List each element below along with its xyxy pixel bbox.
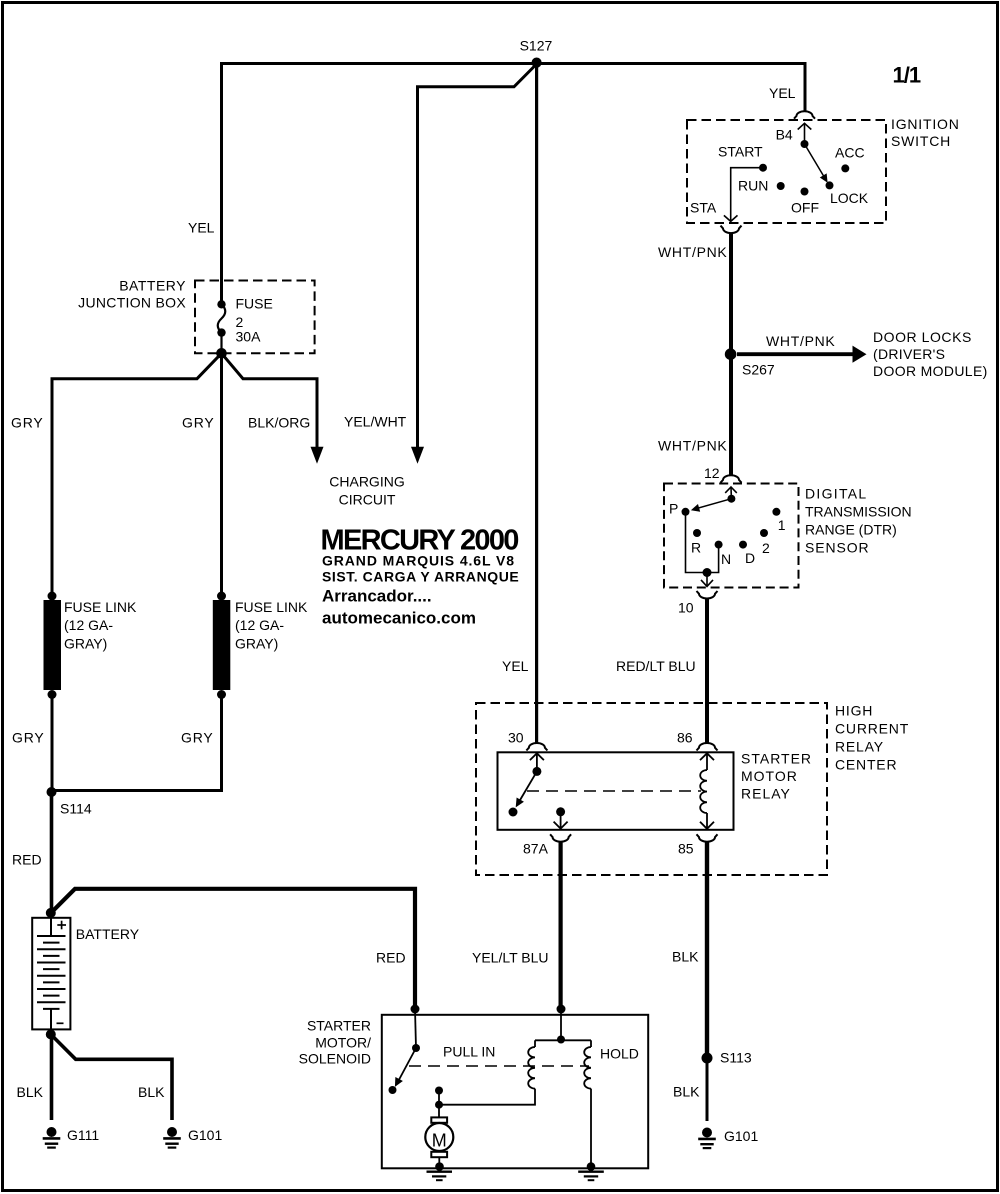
svg-text:WHT/PNK: WHT/PNK <box>658 244 727 260</box>
svg-text:1: 1 <box>778 517 786 533</box>
svg-text:N: N <box>721 551 731 567</box>
svg-text:30A: 30A <box>236 329 262 345</box>
svg-text:BATTERY: BATTERY <box>119 277 186 293</box>
svg-text:WHT/PNK: WHT/PNK <box>766 333 835 349</box>
svg-text:GRY: GRY <box>11 414 44 430</box>
svg-text:SWITCH: SWITCH <box>891 133 951 149</box>
svg-text:Arrancador....: Arrancador.... <box>322 586 432 605</box>
svg-text:GRY: GRY <box>181 729 214 745</box>
svg-text:2: 2 <box>762 540 770 556</box>
svg-text:automecanico.com: automecanico.com <box>322 608 476 627</box>
svg-text:S127: S127 <box>520 38 553 54</box>
svg-text:DOOR LOCKS: DOOR LOCKS <box>873 329 972 345</box>
svg-text:85: 85 <box>678 840 694 856</box>
svg-text:86: 86 <box>677 729 693 745</box>
svg-text:MOTOR: MOTOR <box>741 768 798 784</box>
svg-text:RUN: RUN <box>738 177 768 193</box>
svg-text:GRY: GRY <box>182 414 215 430</box>
svg-text:IGNITION: IGNITION <box>891 116 960 132</box>
svg-text:RELAY: RELAY <box>835 738 884 754</box>
svg-text:2: 2 <box>236 314 244 330</box>
svg-text:LOCK: LOCK <box>830 190 869 206</box>
svg-text:G101: G101 <box>724 1128 758 1144</box>
svg-text:SOLENOID: SOLENOID <box>299 1050 371 1066</box>
svg-text:(12 GA-: (12 GA- <box>235 617 284 633</box>
svg-text:GRAY): GRAY) <box>64 636 107 652</box>
svg-text:FUSE: FUSE <box>236 296 273 312</box>
svg-text:TRANSMISSION: TRANSMISSION <box>805 504 912 520</box>
svg-text:GRAND MARQUIS 4.6L V8: GRAND MARQUIS 4.6L V8 <box>322 553 515 569</box>
svg-text:MERCURY 2000: MERCURY 2000 <box>321 524 519 556</box>
svg-text:RANGE (DTR): RANGE (DTR) <box>805 522 897 538</box>
svg-text:(12 GA-: (12 GA- <box>64 617 113 633</box>
svg-text:R: R <box>691 539 701 555</box>
svg-text:YEL/WHT: YEL/WHT <box>344 413 407 429</box>
svg-text:PULL IN: PULL IN <box>443 1044 495 1060</box>
svg-text:10: 10 <box>678 599 694 615</box>
svg-text:STA: STA <box>690 200 717 216</box>
svg-text:DIGITAL: DIGITAL <box>805 486 868 502</box>
svg-text:(DRIVER'S: (DRIVER'S <box>873 346 945 362</box>
svg-text:GRAY): GRAY) <box>235 636 278 652</box>
svg-text:YEL/LT BLU: YEL/LT BLU <box>472 949 549 965</box>
svg-text:D: D <box>745 550 755 566</box>
svg-text:FUSE LINK: FUSE LINK <box>64 599 137 615</box>
svg-text:RED/LT BLU: RED/LT BLU <box>616 658 696 674</box>
svg-text:STARTER: STARTER <box>307 1017 371 1033</box>
svg-text:BLK: BLK <box>673 1083 700 1099</box>
svg-text:RED: RED <box>12 851 42 867</box>
svg-text:OFF: OFF <box>791 200 819 216</box>
svg-text:S267: S267 <box>742 362 775 378</box>
svg-text:WHT/PNK: WHT/PNK <box>658 437 727 453</box>
svg-text:S114: S114 <box>60 800 92 816</box>
svg-text:87A: 87A <box>523 840 549 856</box>
svg-text:DOOR MODULE): DOOR MODULE) <box>873 363 988 379</box>
svg-text:1/1: 1/1 <box>893 63 921 88</box>
svg-text:YEL: YEL <box>502 658 529 674</box>
svg-text:STARTER: STARTER <box>741 751 812 767</box>
svg-text:CURRENT: CURRENT <box>835 720 909 736</box>
svg-text:JUNCTION BOX: JUNCTION BOX <box>78 294 186 310</box>
svg-text:RED: RED <box>376 949 406 965</box>
svg-text:SIST. CARGA Y ARRANQUE: SIST. CARGA Y ARRANQUE <box>322 568 519 584</box>
svg-text:SENSOR: SENSOR <box>805 540 870 556</box>
svg-text:30: 30 <box>508 729 524 745</box>
svg-text:BLK/ORG: BLK/ORG <box>248 414 310 430</box>
svg-text:YEL: YEL <box>769 85 796 101</box>
svg-text:BLK: BLK <box>672 948 699 964</box>
svg-text:CHARGING: CHARGING <box>329 474 404 490</box>
svg-text:12: 12 <box>704 465 720 481</box>
svg-text:GRY: GRY <box>12 729 45 745</box>
svg-text:BATTERY: BATTERY <box>76 926 140 942</box>
svg-text:CENTER: CENTER <box>835 756 897 772</box>
svg-text:FUSE LINK: FUSE LINK <box>235 599 308 615</box>
svg-text:BLK: BLK <box>138 1084 165 1100</box>
svg-text:M: M <box>432 1130 447 1150</box>
svg-text:B4: B4 <box>776 127 793 143</box>
svg-text:G101: G101 <box>188 1127 222 1143</box>
svg-text:G111: G111 <box>67 1127 99 1143</box>
svg-text:BLK: BLK <box>17 1084 44 1100</box>
svg-text:RELAY: RELAY <box>741 786 791 802</box>
svg-text:ACC: ACC <box>835 145 865 161</box>
svg-text:S113: S113 <box>720 1049 752 1065</box>
svg-text:P: P <box>669 500 678 516</box>
svg-text:MOTOR/: MOTOR/ <box>315 1034 371 1050</box>
svg-text:CIRCUIT: CIRCUIT <box>339 492 396 508</box>
svg-text:START: START <box>718 143 763 159</box>
svg-text:HOLD: HOLD <box>600 1046 639 1062</box>
svg-text:YEL: YEL <box>188 220 215 236</box>
svg-text:HIGH: HIGH <box>835 702 873 718</box>
